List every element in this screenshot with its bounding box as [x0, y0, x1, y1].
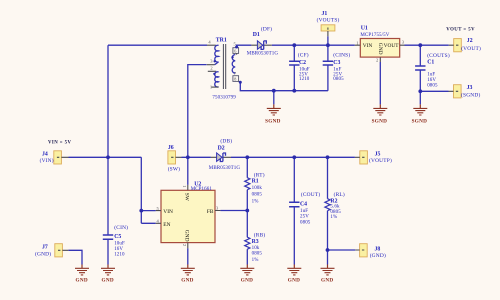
svg-text:VOUT = 5V: VOUT = 5V	[446, 28, 475, 33]
wire VIN rail J4 to corner	[69, 156, 142, 158]
svg-text:10k: 10k	[252, 246, 260, 251]
connector J5	[355, 151, 392, 164]
wire U1 GND down	[379, 62, 381, 104]
wire secondary pin5 to D1	[237, 45, 252, 47]
svg-text:C3: C3	[333, 60, 340, 66]
resistor R2	[325, 191, 345, 220]
svg-text:2: 2	[182, 244, 187, 246]
wire C5 bottom to ground	[107, 239, 109, 264]
svg-text:(VOUT): (VOUT)	[461, 45, 481, 52]
svg-text:2: 2	[376, 58, 378, 63]
svg-text:J2: J2	[467, 38, 473, 44]
svg-text:C1: C1	[427, 59, 434, 65]
ground GND C4	[287, 265, 301, 284]
svg-text:750310799: 750310799	[212, 95, 236, 100]
ground SGND secondary	[265, 104, 281, 124]
svg-text:J3: J3	[467, 85, 473, 91]
connector J8	[355, 244, 386, 260]
capacitor C2	[289, 51, 310, 82]
svg-text:25V: 25V	[300, 215, 309, 220]
svg-text:GND: GND	[377, 43, 383, 55]
svg-text:1%: 1%	[330, 215, 337, 220]
svg-text:(DF): (DF)	[261, 26, 272, 33]
svg-text:GND: GND	[184, 230, 190, 242]
node J8 ground	[326, 248, 330, 252]
node U2 VIN/EN	[139, 209, 143, 213]
wire pin4 top horizontal	[108, 44, 207, 46]
connector J4	[40, 151, 69, 164]
svg-text:D2: D2	[218, 146, 225, 152]
svg-text:1210: 1210	[299, 77, 310, 82]
svg-text:J4: J4	[42, 152, 48, 158]
node top rail C2	[292, 43, 296, 47]
svg-text:(SGND): (SGND)	[461, 91, 480, 98]
svg-text:1%: 1%	[252, 258, 259, 263]
ground SGND U1	[372, 104, 388, 124]
node SW rail	[186, 155, 190, 159]
wire R1 column	[246, 157, 248, 237]
svg-text:(GND): (GND)	[35, 251, 51, 258]
svg-text:2: 2	[210, 65, 212, 70]
svg-text:1: 1	[182, 185, 187, 187]
svg-text:MBR0530T1G: MBR0530T1G	[247, 52, 279, 57]
svg-text:D1: D1	[253, 32, 260, 38]
svg-text:SGND: SGND	[265, 119, 281, 125]
ground GND R3	[240, 265, 254, 284]
svg-text:0805: 0805	[252, 193, 263, 198]
wire R2 column and J8 rail	[328, 157, 356, 264]
connector J1	[317, 11, 340, 36]
svg-text:R1: R1	[252, 178, 259, 184]
svg-text:VOUT: VOUT	[384, 43, 400, 49]
resistor R1	[245, 171, 265, 204]
ground GND U2	[181, 265, 195, 284]
svg-text:J1: J1	[322, 11, 328, 17]
svg-text:FB: FB	[207, 209, 214, 215]
wire SGND secondary stub	[273, 91, 275, 105]
svg-text:J8: J8	[375, 246, 381, 252]
wire J7 to ground	[68, 250, 82, 264]
svg-text:TR1: TR1	[216, 38, 227, 44]
wire J6 to D2 anode	[182, 156, 211, 158]
svg-text:(VIN): (VIN)	[40, 157, 54, 164]
ground GND R2/J8	[321, 265, 335, 284]
svg-text:VIN = 5V: VIN = 5V	[48, 140, 71, 145]
svg-text:SGND: SGND	[412, 119, 428, 125]
svg-text:(COUT): (COUT)	[301, 191, 320, 198]
wire vertical VIN/C5 column	[107, 45, 109, 235]
transformer TR1	[207, 38, 242, 101]
svg-text:(CINS): (CINS)	[333, 51, 350, 58]
node top rail J1/C3	[326, 43, 330, 47]
svg-text:(RL): (RL)	[334, 191, 345, 198]
regulator U2	[156, 182, 221, 249]
svg-text:C5: C5	[114, 234, 121, 240]
resistor R3	[245, 232, 266, 263]
wire U2 VIN/EN feed	[141, 157, 155, 223]
node secondary bottom C2	[292, 89, 296, 93]
wire secondary bottom rail	[240, 82, 328, 91]
svg-text:1: 1	[356, 40, 358, 45]
svg-text:100k: 100k	[252, 186, 263, 191]
svg-text:(COUTS): (COUTS)	[427, 52, 450, 59]
svg-text:(VOUTP): (VOUTP)	[369, 157, 392, 164]
svg-text:GND: GND	[181, 278, 193, 284]
svg-text:MCP1661: MCP1661	[191, 187, 213, 192]
svg-text:SGND: SGND	[372, 119, 388, 125]
connector J2	[449, 38, 481, 52]
svg-text:(CIN): (CIN)	[114, 224, 128, 231]
svg-text:0805: 0805	[252, 252, 263, 257]
capacitor C4	[289, 191, 320, 225]
svg-text:(SW): (SW)	[168, 166, 180, 173]
svg-text:(GND): (GND)	[370, 252, 386, 259]
wire U1 VOUT to J2	[405, 44, 449, 46]
node VIN rail C5	[106, 155, 110, 159]
wire C1 column	[419, 45, 421, 104]
svg-text:J5: J5	[375, 152, 381, 158]
svg-text:R3: R3	[252, 239, 259, 245]
svg-text:J7: J7	[42, 245, 48, 251]
wire U2 GND down	[187, 248, 189, 264]
svg-text:1uF: 1uF	[427, 72, 435, 77]
regulator U1	[355, 25, 405, 62]
capacitor C5	[103, 224, 128, 258]
wire D2 cathode rail to J5	[231, 156, 355, 158]
svg-text:R2: R2	[330, 198, 337, 204]
svg-text:GND: GND	[76, 278, 88, 284]
svg-text:C4: C4	[300, 202, 307, 208]
svg-text:1: 1	[210, 85, 212, 90]
node C1 bottom J3	[418, 89, 422, 93]
connector J7	[35, 244, 68, 258]
svg-text:U1: U1	[361, 25, 368, 31]
svg-text:GND: GND	[102, 278, 114, 284]
svg-text:EN: EN	[163, 222, 170, 228]
wire R3 bottom to ground	[246, 249, 248, 264]
svg-text:GND: GND	[321, 278, 333, 284]
node out rail R1	[245, 155, 249, 159]
svg-text:0805: 0805	[300, 220, 311, 225]
connector J6	[168, 145, 182, 173]
svg-text:16V: 16V	[427, 78, 436, 83]
svg-text:VIN: VIN	[163, 209, 173, 215]
node VOUT/C1	[418, 43, 422, 47]
node out rail C4	[292, 155, 296, 159]
node out rail R2	[326, 155, 330, 159]
svg-text:(DB): (DB)	[220, 137, 232, 144]
wire C1 node to J3	[420, 90, 448, 92]
svg-text:SW: SW	[184, 193, 190, 202]
capacitor C3	[323, 51, 351, 82]
svg-text:0805: 0805	[333, 77, 344, 82]
ground GND C5	[101, 265, 115, 284]
svg-text:1210: 1210	[114, 253, 125, 258]
svg-text:VIN: VIN	[363, 43, 373, 49]
svg-text:(RT): (RT)	[254, 171, 265, 178]
svg-text:16V: 16V	[114, 247, 123, 252]
svg-text:(VOUTS): (VOUTS)	[317, 16, 340, 23]
ground GND J7	[75, 265, 89, 284]
ground SGND C1	[412, 104, 428, 124]
svg-text:1uF: 1uF	[300, 209, 308, 214]
wire J1 column into C3	[327, 36, 329, 90]
svg-text:1%: 1%	[252, 199, 259, 204]
svg-text:0805: 0805	[427, 84, 438, 89]
svg-text:10uF: 10uF	[114, 242, 125, 247]
diode D2	[209, 137, 241, 171]
wire C2 column	[293, 45, 295, 90]
svg-text:C2: C2	[299, 60, 306, 66]
node secondary bottom SGND	[272, 89, 276, 93]
svg-text:MBR0530T1G: MBR0530T1G	[209, 166, 241, 171]
wire SW vertical and pin3	[188, 65, 207, 185]
svg-text:GND: GND	[288, 278, 300, 284]
connector J3	[449, 85, 481, 99]
svg-text:MCP1755/5V: MCP1755/5V	[360, 33, 389, 38]
wire FB to node	[220, 210, 247, 212]
svg-text:(RB): (RB)	[254, 232, 266, 239]
capacitor C1	[415, 52, 450, 89]
svg-text:J6: J6	[168, 145, 174, 151]
svg-text:GND: GND	[241, 278, 253, 284]
svg-text:(CF): (CF)	[298, 51, 309, 58]
wire C4 column	[293, 157, 295, 264]
diode D1	[247, 26, 279, 57]
node FB divider	[245, 209, 249, 213]
wire D1 cathode rail to U1 VIN	[272, 44, 355, 46]
